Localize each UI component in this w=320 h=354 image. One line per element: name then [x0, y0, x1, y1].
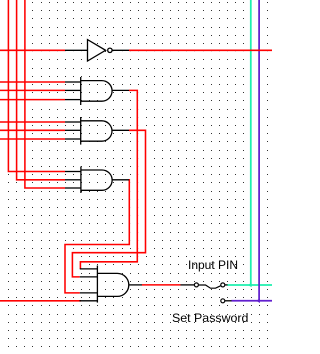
- wire underlays: [0, 0, 272, 301]
- switch SW1 throw B contact: [221, 299, 225, 303]
- pin: SW1 pole: [181, 284, 195, 286]
- junction at Input PIN corner: [248, 283, 252, 287]
- pin: U5 input: [65, 49, 88, 51]
- label Input PIN: [188, 258, 238, 272]
- wire: V1 feedback into U3 input 1: [8, 0, 65, 172]
- pin: U4 output: [129, 284, 142, 286]
- pin: U1 input 1: [65, 81, 81, 83]
- pin: U2 input 2: [65, 129, 81, 131]
- AND gate U1: [81, 77, 112, 105]
- wire: U1 input 3 from left edge: [0, 99, 65, 101]
- wire: U5 output to right edge: [129, 49, 272, 51]
- pin: U2 output: [112, 129, 129, 131]
- pin: U3 input 1: [65, 171, 81, 173]
- pin: U4 input 2: [80, 276, 98, 278]
- pin: SW1 throw B: [225, 300, 232, 302]
- pin: U4 input 4: [80, 300, 98, 302]
- AND gate U4: [97, 266, 128, 303]
- wire: U1 input 1 from left edge: [0, 81, 65, 83]
- wire: U2 input 1 from left edge: [0, 121, 65, 123]
- junction at Set Password corner: [256, 299, 260, 303]
- wire: U3 output wrap to U4 input 3: [65, 180, 129, 293]
- pin: U1 output: [112, 89, 129, 91]
- wire: Input PIN net vertical: [250, 0, 252, 285]
- wire: U4 output to switch pole: [142, 284, 181, 286]
- switch SW1 throw A contact: [221, 283, 225, 287]
- switch SW1 pole contact: [194, 283, 198, 287]
- wire: U1 input 2 from left edge: [0, 89, 65, 91]
- wire: Input PIN net horizontal: [227, 284, 272, 286]
- pin: U3 input 2: [65, 179, 81, 181]
- pin: U4 input 3: [80, 292, 98, 294]
- AND gate U3: [81, 167, 112, 194]
- label Set Password: [172, 311, 248, 325]
- pin: U1 input 2: [65, 89, 81, 91]
- wire: U4 input 4 from left edge: [0, 300, 81, 302]
- pin: U5 output: [112, 49, 129, 51]
- wire: Set Password net horizontal: [231, 300, 272, 302]
- wire: U2 input 2 from left edge: [0, 129, 65, 131]
- pin: U1 input 3: [65, 99, 81, 101]
- pin: U3 output: [112, 179, 129, 181]
- wire: Set Password net vertical: [258, 0, 260, 301]
- pin: U3 input 3: [65, 187, 81, 189]
- switch SW1 arm: [199, 285, 221, 288]
- NOT gate U5: [88, 40, 113, 61]
- pin: U4 input 1: [80, 268, 98, 270]
- AND gate U2: [81, 117, 112, 145]
- wire: V2 feedback into U3 input 2: [17, 0, 65, 180]
- pin: U2 input 3: [65, 138, 81, 140]
- wire: U5 input from left edge: [0, 49, 65, 51]
- wire: U2 output wrap to U4 input 2: [72, 130, 145, 277]
- wire: V3 feedback into U3 input 3: [25, 0, 65, 188]
- wire: U2 input 3 from left edge: [0, 138, 65, 140]
- pin: SW1 throw A: [225, 284, 228, 286]
- wire: U1 output wrap to U4 input 1: [80, 90, 137, 269]
- pin: U2 input 1: [65, 121, 81, 123]
